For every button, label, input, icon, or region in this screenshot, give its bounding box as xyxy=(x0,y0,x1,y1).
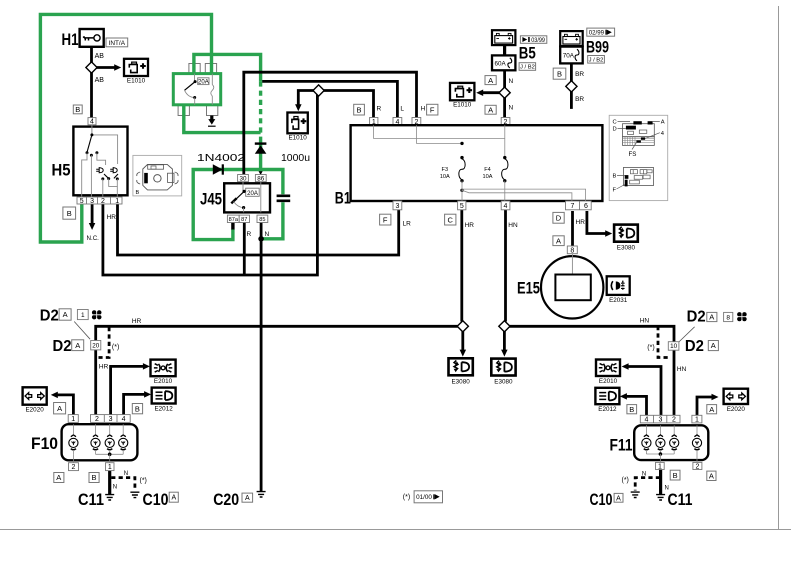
svg-text:E1010: E1010 xyxy=(288,134,307,141)
label INT/A xyxy=(106,38,128,47)
pin row H5 bottom 5 3 2 1 xyxy=(77,197,122,205)
svg-text:B: B xyxy=(67,209,72,218)
svg-text:B99: B99 xyxy=(586,38,609,57)
wire green capacitor to 85 node xyxy=(263,202,283,239)
ground C20 xyxy=(213,490,265,509)
wire N B5 fuse to B1 pin2 xyxy=(503,70,506,117)
svg-text:7: 7 xyxy=(571,203,575,210)
battery ref E1010 mid xyxy=(287,113,307,142)
label B box E2012 left xyxy=(132,404,142,414)
label L wire xyxy=(400,106,404,113)
svg-text:N: N xyxy=(113,485,117,491)
wire H B1 pin2 to J45 pin30 xyxy=(244,72,417,174)
svg-text:2: 2 xyxy=(95,416,99,423)
svg-text:HR: HR xyxy=(465,222,475,229)
label HN wire pin4 xyxy=(508,222,518,229)
svg-text:HN: HN xyxy=(508,222,518,229)
wire stub J45 87a xyxy=(231,223,234,230)
label J/B2 B5 xyxy=(519,63,536,71)
label HR bus xyxy=(132,318,142,325)
wire N J45 85 to C20 ground xyxy=(260,223,263,492)
svg-text:4: 4 xyxy=(645,417,649,424)
svg-text:1: 1 xyxy=(115,198,119,205)
svg-text:L: L xyxy=(400,106,404,113)
svg-text:E1010: E1010 xyxy=(453,101,472,108)
svg-text:(*): (*) xyxy=(647,345,654,352)
svg-text:E2012: E2012 xyxy=(598,406,617,413)
svg-text:C10: C10 xyxy=(143,490,169,509)
ground breaker xyxy=(208,116,216,127)
instrument cluster E15 xyxy=(517,254,603,319)
connector D2 row1 left xyxy=(40,307,102,324)
svg-text:30: 30 xyxy=(239,175,247,182)
node diamond HN bus xyxy=(499,321,510,332)
svg-text:B: B xyxy=(135,404,140,413)
control unit B1 xyxy=(335,118,603,211)
svg-text:2: 2 xyxy=(695,464,699,471)
svg-text:E2020: E2020 xyxy=(727,406,746,413)
svg-text:A: A xyxy=(56,473,61,482)
svg-text:C20: C20 xyxy=(213,490,239,509)
svg-text:B: B xyxy=(629,405,634,414)
label HN below D2 xyxy=(677,366,687,373)
label LR wire xyxy=(403,221,412,228)
svg-text:HN: HN xyxy=(640,318,650,325)
svg-text:B: B xyxy=(91,473,96,482)
svg-text:E2020: E2020 xyxy=(25,407,44,414)
svg-text:A: A xyxy=(711,341,716,350)
wire green J45 87a loop with 1N4002 xyxy=(193,170,283,240)
wire dashed to C10 ground right xyxy=(635,478,660,491)
svg-text:F4: F4 xyxy=(484,167,491,173)
svg-text:87: 87 xyxy=(241,217,247,223)
svg-text:3: 3 xyxy=(90,198,94,205)
svg-text:85: 85 xyxy=(259,217,265,223)
lamp ref E2020 left xyxy=(23,387,47,413)
wire F10 pin1 arrow to E2020 xyxy=(51,392,74,415)
label N C11 right xyxy=(665,486,669,492)
svg-text:J45: J45 xyxy=(200,190,222,209)
wire green breaker pin to node xyxy=(194,54,261,81)
wire arrow junction to E3080 right xyxy=(501,332,508,357)
svg-text:A: A xyxy=(556,236,561,245)
svg-text:86: 86 xyxy=(257,175,265,182)
wire HR B1 pin5 to junction xyxy=(460,210,463,322)
label N.C. xyxy=(87,235,100,242)
label date 02/99 xyxy=(587,28,615,36)
svg-text:01/00: 01/00 xyxy=(416,494,432,501)
label N B5 lower xyxy=(509,105,514,112)
svg-text:D2: D2 xyxy=(53,338,72,355)
svg-text:D: D xyxy=(556,214,562,223)
lamp ref E2020 right xyxy=(724,389,748,413)
wire arrow to E1010 battery ref 2 xyxy=(295,91,319,112)
lamp ref E2010 left xyxy=(151,360,176,385)
lamp cluster F10 xyxy=(31,415,137,472)
label H wire xyxy=(421,106,426,113)
svg-text:A: A xyxy=(245,495,250,502)
wire arrow B1 pin6 to E3080 xyxy=(587,211,612,237)
wire N F10 to C11 ground xyxy=(108,471,111,494)
diode vertical at 86 xyxy=(255,144,267,154)
battery B5 with fuse 60A xyxy=(492,30,536,70)
wire AB H1 to H5 pin4 xyxy=(90,47,93,118)
ground C11 left xyxy=(78,490,114,509)
svg-text:20A: 20A xyxy=(247,191,258,197)
svg-text:B5: B5 xyxy=(519,44,536,63)
label A box F10 bottom xyxy=(54,473,64,483)
label HR below D2 xyxy=(99,363,109,370)
svg-text:D2: D2 xyxy=(40,307,59,324)
svg-text:E15: E15 xyxy=(517,279,540,298)
svg-text:B: B xyxy=(356,105,361,114)
wire HN bus to F11 xyxy=(510,326,674,415)
switch H5 light switch xyxy=(52,125,128,197)
circuit breaker 20A relay xyxy=(173,74,220,105)
position light ref E2031 xyxy=(607,276,630,304)
svg-text:(*): (*) xyxy=(622,477,629,484)
wire R J45 87 down xyxy=(243,223,246,276)
label date 03/99 xyxy=(520,36,546,44)
label N B5 upper xyxy=(509,78,514,85)
label R J45 xyxy=(247,231,252,238)
lamp cluster F11 xyxy=(610,415,709,470)
wire B5 battery to fuse xyxy=(503,45,506,55)
label A box pin8 xyxy=(553,236,564,246)
svg-text:5: 5 xyxy=(80,198,84,205)
headlamp ref E3080 bottom left xyxy=(449,358,473,385)
label C box B1 pin5 xyxy=(445,214,456,225)
svg-text:E2012: E2012 xyxy=(154,406,173,413)
battery B99 with fuse 70A xyxy=(560,31,609,63)
svg-text:C11: C11 xyxy=(668,490,693,509)
svg-text:1: 1 xyxy=(81,312,85,319)
svg-text:F11: F11 xyxy=(610,435,633,454)
svg-text:E2010: E2010 xyxy=(599,378,618,385)
svg-text:F3: F3 xyxy=(442,167,449,173)
lamp ref E2010 right xyxy=(596,360,620,386)
svg-text:E3080: E3080 xyxy=(617,244,636,251)
svg-text:BR: BR xyxy=(575,71,584,78)
svg-text:FS: FS xyxy=(629,151,637,158)
svg-text:N: N xyxy=(642,472,646,478)
svg-text:70A: 70A xyxy=(563,53,575,60)
node diamond BR B99 xyxy=(566,81,577,92)
svg-text:(*): (*) xyxy=(403,494,410,501)
wire node to B1 pin1 xyxy=(317,91,373,118)
wire F10 pin3 arrow to E2010 xyxy=(111,363,150,415)
svg-text:BR: BR xyxy=(575,96,584,103)
svg-text:B: B xyxy=(673,471,678,480)
wire N F11 to C11 ground xyxy=(659,470,662,495)
label (*) date center xyxy=(403,491,443,503)
svg-text:F: F xyxy=(613,188,617,194)
svg-text:02/99: 02/99 xyxy=(589,30,605,37)
connector B label xyxy=(73,105,82,114)
svg-text:3: 3 xyxy=(109,416,113,423)
svg-text:A: A xyxy=(709,472,714,481)
svg-text:C: C xyxy=(447,215,453,224)
svg-text:E3080: E3080 xyxy=(451,378,470,385)
svg-text:8: 8 xyxy=(570,247,574,254)
wire dashed D2 variant left xyxy=(99,327,110,358)
svg-text:AB: AB xyxy=(95,77,105,84)
label A box E2020 left xyxy=(54,403,66,414)
pin 4 H5 xyxy=(88,118,96,126)
battery ref E1010 top xyxy=(124,59,148,85)
connector D2 row1 right xyxy=(687,309,747,326)
wire F11 pin4 arrow to E2012 xyxy=(620,393,647,415)
wire green highlight loop H5 pin5 to breaker xyxy=(40,14,211,242)
wire arrow B5 to E1010 battery ref 3 xyxy=(476,90,504,97)
label HR at H5 xyxy=(107,214,117,221)
svg-text:03/99: 03/99 xyxy=(531,37,545,44)
wire green breaker output to J45 86 xyxy=(184,105,264,175)
svg-text:HR: HR xyxy=(99,363,109,370)
wire BR B99 down xyxy=(570,63,573,109)
svg-text:2: 2 xyxy=(72,464,76,471)
label J/B2 B99 xyxy=(588,56,605,64)
wire arrow junction to E3080 left xyxy=(460,332,467,357)
svg-text:A: A xyxy=(709,313,714,322)
svg-text:E2031: E2031 xyxy=(609,297,628,304)
svg-text:F: F xyxy=(383,215,388,224)
svg-text:A: A xyxy=(616,495,621,502)
svg-text:E1010: E1010 xyxy=(127,77,146,84)
svg-text:HR: HR xyxy=(576,219,586,226)
leader D2 right xyxy=(678,327,695,343)
svg-text:A: A xyxy=(709,405,714,414)
circuit breaker pin boxes xyxy=(178,64,218,116)
svg-text:6: 6 xyxy=(584,203,588,210)
switch H1 ignition xyxy=(62,29,104,49)
label AB lower xyxy=(95,77,105,84)
svg-text:A: A xyxy=(661,119,665,125)
label B box F10 bottom xyxy=(89,473,99,483)
svg-text:A: A xyxy=(488,76,493,85)
svg-text:B: B xyxy=(613,174,617,180)
svg-text:10A: 10A xyxy=(440,174,450,180)
label AB upper xyxy=(95,53,105,60)
svg-text:N: N xyxy=(124,471,128,477)
wire HR H5 pin2 to B1 pin1 node xyxy=(103,91,318,276)
label (*) right xyxy=(647,345,654,352)
svg-text:C10: C10 xyxy=(590,490,613,509)
wire dashed to C10 ground left xyxy=(111,478,135,491)
svg-text:R: R xyxy=(377,106,382,113)
fusebox location diagram FS xyxy=(609,115,668,200)
label N J45 xyxy=(265,231,270,238)
label HN bus xyxy=(640,318,650,325)
label HR wire pin7 xyxy=(576,219,586,226)
svg-text:C: C xyxy=(613,119,617,125)
headlamp ref E3080 top xyxy=(614,225,638,252)
svg-text:HR: HR xyxy=(132,318,142,325)
node diamond N B5 xyxy=(499,87,510,98)
svg-text:LR: LR xyxy=(403,221,412,228)
wire F10 pin4 arrow to E2012 xyxy=(124,391,152,415)
label R wire xyxy=(377,106,382,113)
svg-text:8: 8 xyxy=(726,314,730,321)
svg-text:1: 1 xyxy=(108,464,112,471)
svg-text:N: N xyxy=(509,78,514,85)
wire L B1 pin4 to green node xyxy=(262,81,397,117)
ground C10 left xyxy=(130,490,178,509)
svg-text:H: H xyxy=(421,106,426,113)
label (*) left xyxy=(112,344,119,351)
wire green dashed variant to diode node xyxy=(259,81,262,140)
label BR upper xyxy=(575,71,584,78)
label N C10 right xyxy=(642,472,646,478)
svg-text:E2010: E2010 xyxy=(154,378,173,385)
wire F11 pin1 arrow to E2020 xyxy=(697,394,719,416)
svg-text:D2: D2 xyxy=(687,309,706,326)
svg-text:(*): (*) xyxy=(112,344,119,351)
svg-text:AB: AB xyxy=(95,53,105,60)
svg-text:1000u: 1000u xyxy=(281,152,310,164)
svg-text:10: 10 xyxy=(670,343,678,350)
svg-text:E3080: E3080 xyxy=(494,378,513,385)
label N C10 left xyxy=(124,471,128,477)
svg-text:A: A xyxy=(488,106,493,115)
svg-text:A: A xyxy=(63,310,68,319)
svg-text:4: 4 xyxy=(122,416,126,423)
svg-text:10A: 10A xyxy=(483,174,493,180)
svg-text:C11: C11 xyxy=(78,490,104,509)
label A box B5 upper xyxy=(485,76,496,85)
svg-text:20A: 20A xyxy=(198,80,209,86)
svg-text:2: 2 xyxy=(101,198,105,205)
label N C11 left xyxy=(113,485,117,491)
svg-text:(*): (*) xyxy=(140,478,147,485)
leader D2 left xyxy=(74,322,90,340)
lamp ref E2012 right xyxy=(595,388,619,413)
svg-text:H1: H1 xyxy=(62,30,79,49)
svg-text:INT/A: INT/A xyxy=(109,40,126,47)
label A box B5 lower xyxy=(485,105,496,114)
svg-text:F10: F10 xyxy=(31,434,58,453)
label HR wire pin5 xyxy=(465,222,475,229)
svg-text:H5: H5 xyxy=(52,161,71,180)
wire F11 pin3 arrow to E2010 xyxy=(622,363,661,415)
svg-text:N.C.: N.C. xyxy=(87,235,100,242)
node diamond R xyxy=(313,85,324,96)
svg-text:4: 4 xyxy=(504,203,508,210)
svg-text:R: R xyxy=(247,231,252,238)
svg-text:2: 2 xyxy=(672,417,676,424)
connector B label below H5 xyxy=(63,207,76,219)
lamp ref E2012 left xyxy=(152,388,176,413)
wire HR bus to F10 xyxy=(96,326,458,414)
svg-text:B: B xyxy=(136,190,140,196)
ground C11 right xyxy=(656,490,692,509)
ground C10 right xyxy=(590,490,640,509)
svg-text:J / B2: J / B2 xyxy=(520,65,535,71)
svg-text:1N4002: 1N4002 xyxy=(197,152,245,164)
svg-text:D: D xyxy=(613,127,617,133)
svg-text:A: A xyxy=(75,341,80,350)
svg-text:N: N xyxy=(665,486,669,492)
svg-text:B: B xyxy=(75,105,80,114)
battery ref E1010 right xyxy=(450,83,474,108)
capacitor 1000u xyxy=(277,152,311,201)
svg-text:20: 20 xyxy=(92,343,100,350)
svg-text:1: 1 xyxy=(71,416,75,423)
svg-text:N: N xyxy=(265,231,270,238)
pin 8 E15 xyxy=(567,246,577,254)
svg-text:HN: HN xyxy=(677,366,687,373)
connector D2 row2 left xyxy=(53,338,101,355)
svg-text:A: A xyxy=(57,404,62,413)
label (*) bottom left xyxy=(140,478,147,485)
label (*) bottom right xyxy=(622,477,629,484)
connector D2 row2 right xyxy=(668,338,718,355)
svg-text:87a: 87a xyxy=(229,217,239,223)
label B box B1 pin1 xyxy=(354,104,365,115)
junction dot 85 green xyxy=(258,236,264,242)
wire arrow to E1010 battery ref xyxy=(94,64,121,71)
svg-text:F: F xyxy=(430,105,435,114)
node diamond AB xyxy=(86,62,97,73)
label F box B1 pin2 xyxy=(427,104,438,115)
svg-text:HR: HR xyxy=(107,214,117,221)
svg-text:1: 1 xyxy=(695,417,699,424)
headlamp ref E3080 bottom right xyxy=(491,359,515,386)
node diamond HR bus xyxy=(457,321,468,332)
svg-text:5: 5 xyxy=(460,203,464,210)
label F box B1 pin3 xyxy=(380,214,391,225)
svg-text:B1: B1 xyxy=(335,188,351,207)
label B box E2012 right xyxy=(627,405,637,414)
wire HR B1 pin7 to E15 pin8 xyxy=(571,211,574,246)
wire H5 pin1 to B1 pin3 xyxy=(118,204,399,255)
relay J45 xyxy=(200,175,270,223)
label B box B99 xyxy=(553,68,566,79)
label B box F11 bottom xyxy=(670,470,680,480)
diode 1N4002 xyxy=(197,152,245,175)
label D box B1 pin7 xyxy=(553,212,564,223)
svg-text:3: 3 xyxy=(395,203,399,210)
wire N.C. arrow from H5 pin3 xyxy=(89,204,96,230)
svg-text:N: N xyxy=(509,105,514,112)
svg-text:60A: 60A xyxy=(495,61,507,68)
svg-text:1: 1 xyxy=(658,464,662,471)
svg-text:B: B xyxy=(557,69,562,78)
connector view illustration B xyxy=(133,155,182,196)
wire HN B1 pin4 to junction xyxy=(504,210,507,322)
label BR lower xyxy=(575,96,584,103)
svg-text:4: 4 xyxy=(90,119,94,126)
svg-text:3: 3 xyxy=(658,417,662,424)
svg-text:J / B2: J / B2 xyxy=(589,57,604,63)
label A box F11 bottom xyxy=(707,471,716,480)
wire dashed D2 variant right xyxy=(658,326,669,358)
svg-text:D2: D2 xyxy=(685,338,704,355)
svg-text:A: A xyxy=(171,495,176,502)
label A box E2020 right xyxy=(707,405,717,414)
